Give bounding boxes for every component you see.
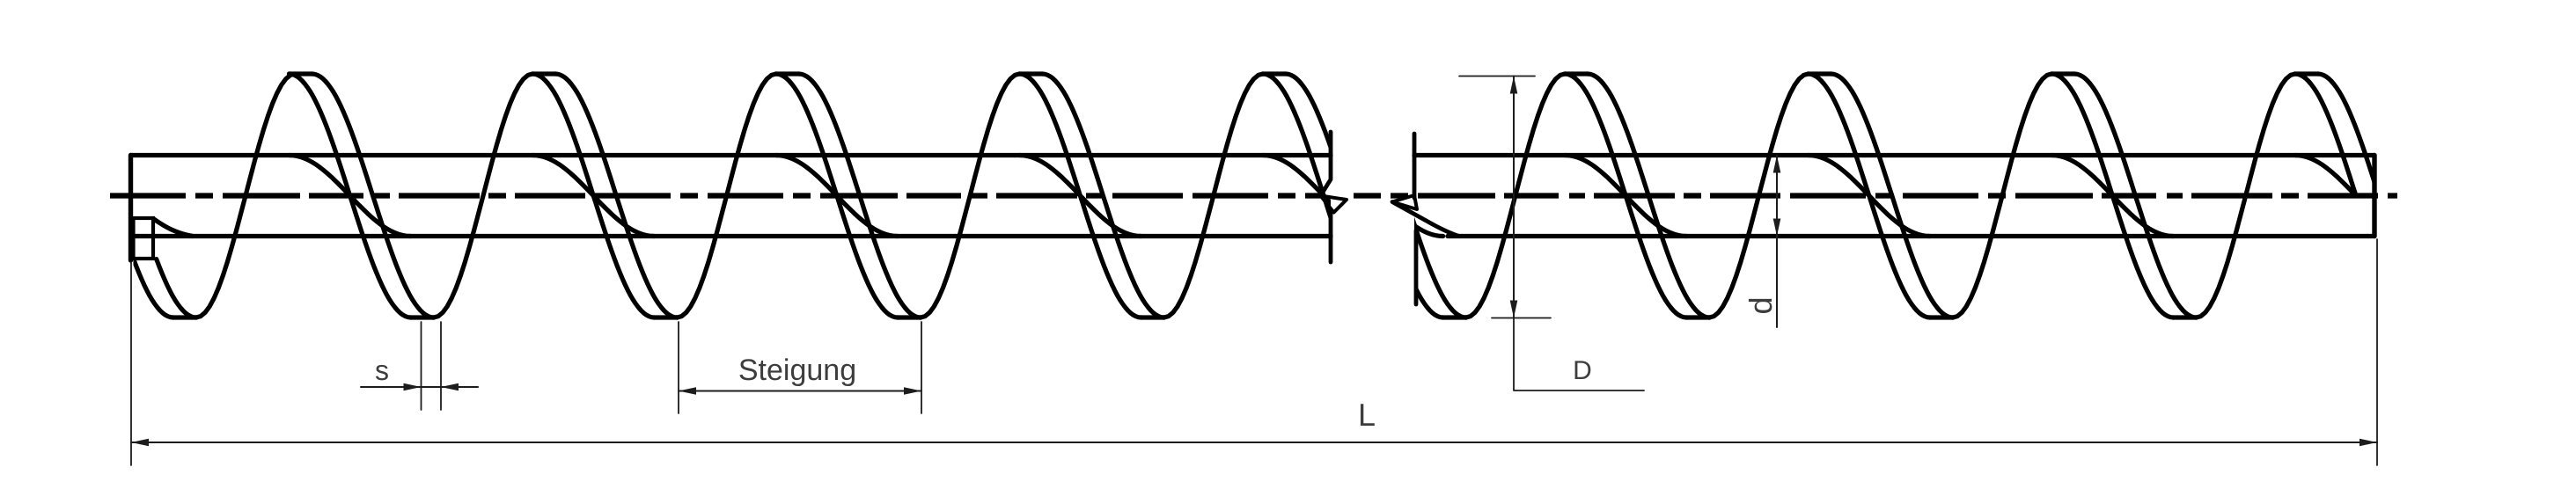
flight turn 4 tip cap (top crest)	[2051, 71, 2074, 76]
flight turn 4 front edge (descending band)	[2051, 74, 2196, 317]
flight turn 3 front edge (descending band)	[1809, 74, 1953, 317]
dimension D (outer flight diameter)	[1459, 77, 1644, 391]
flight turn 4 tip cap (bottom crest)	[2174, 315, 2197, 319]
flight turn 1 tip cap (top crest)	[1321, 71, 1344, 76]
flight turn 3 tip cap (bottom crest)	[1930, 315, 1953, 319]
shaft right section outline	[1414, 156, 2374, 237]
flight turn 5 back edge (ascending)	[2440, 74, 2538, 317]
break line right (jagged cut at start of right shaft piece)	[1392, 134, 1459, 304]
flight turn 2 tip cap (bottom crest)	[411, 315, 434, 319]
flight turn 1 tip cap (top crest)	[52, 71, 75, 76]
flight turn 5 back edge (ascending)	[1164, 74, 1263, 317]
flight turn 1 root helix on shaft	[153, 219, 193, 237]
flight turn 5 root helix on shaft	[1019, 156, 1141, 237]
flight turn 3 root helix on shaft	[532, 156, 654, 237]
flight turn 5 tip cap (bottom crest)	[1141, 315, 1164, 319]
flight turn 4 root helix on shaft	[2051, 156, 2173, 237]
flight turn 2 back edge (ascending)	[1709, 74, 1808, 317]
flight turn 3 tip cap (bottom crest)	[654, 315, 677, 319]
flight turn 2 tip cap (top crest)	[290, 71, 312, 76]
flight turn 2 back edge (ascending)	[434, 74, 532, 317]
svg-text:D: D	[1573, 356, 1592, 385]
shaft left section outline	[131, 156, 1332, 261]
flight turn 5 tip cap (top crest)	[1019, 71, 1042, 76]
flight turn 2 root helix on shaft	[290, 156, 411, 237]
dimension s (flight thickness)	[361, 322, 478, 410]
dimension Steigung (pitch)	[679, 322, 921, 413]
flight turn 5 tip cap (top crest)	[2295, 71, 2318, 76]
flight turn 2 tip cap (top crest)	[1565, 71, 1588, 76]
flight turn 1 back edge (ascending)	[1466, 74, 1565, 317]
flight turn 4 back edge (ascending)	[2197, 74, 2295, 317]
flight turn 5 root helix on shaft	[2295, 156, 2356, 196]
break line left (jagged cut at end of left shaft piece)	[1321, 132, 1347, 262]
flight turn 6 tip cap (bottom crest)	[1384, 315, 1407, 319]
flight turn 4 tip cap (bottom crest)	[898, 315, 921, 319]
flight turn 1 tip cap (bottom crest)	[1443, 315, 1466, 319]
flight turn 4 root helix on shaft	[776, 156, 898, 237]
flight turn 2 front edge (descending band)	[1565, 74, 1709, 317]
dimension d (shaft diameter)	[1743, 156, 1780, 328]
flight cut cross-section rectangle at left start	[134, 218, 154, 259]
flight turn 4 back edge (ascending)	[921, 74, 1019, 317]
flight turn 3 tip cap (top crest)	[1809, 71, 1831, 76]
centerline (shaft axis, dash-dot)	[110, 193, 2397, 198]
flight turn 4 tip cap (top crest)	[776, 71, 799, 76]
flight turn 3 back edge (ascending)	[677, 74, 775, 317]
flight turn 6 front edge (descending band)	[1263, 74, 1407, 317]
flight turn 1 front edge (descending band)	[52, 74, 196, 317]
svg-text:s: s	[375, 354, 389, 386]
flight turn 5 front edge (descending band)	[1019, 74, 1163, 317]
flight turn 3 front edge (descending band)	[532, 74, 677, 317]
flight turn 6 back edge (ascending)	[1407, 74, 1506, 317]
svg-text:L: L	[1358, 397, 1376, 433]
flight turn 5 front edge (descending band)	[2295, 74, 2379, 196]
svg-text:Steigung: Steigung	[738, 354, 856, 387]
svg-text:d: d	[1743, 296, 1779, 314]
flight turn 3 root helix on shaft	[1809, 156, 1930, 237]
flight turn 1 root helix on shaft	[1321, 156, 1442, 237]
flight turn 6 tip cap (top crest)	[1263, 71, 1286, 76]
flight turn 3 tip cap (top crest)	[532, 71, 555, 76]
flight turn 3 back edge (ascending)	[1953, 74, 2051, 317]
flight turn 1 tip cap (bottom crest)	[173, 315, 196, 319]
flight turn 1 front edge (descending band)	[1321, 74, 1465, 317]
dimension L (overall length)	[131, 239, 2377, 465]
flight turn 6 root helix on shaft	[1263, 156, 1384, 237]
flight turn 2 tip cap (bottom crest)	[1686, 315, 1709, 319]
flight turn 2 front edge (descending band)	[290, 74, 434, 317]
flight turn 4 front edge (descending band)	[776, 74, 921, 317]
flight turn 1 back edge (ascending)	[196, 74, 295, 317]
flight turn 2 root helix on shaft	[1565, 156, 1686, 237]
